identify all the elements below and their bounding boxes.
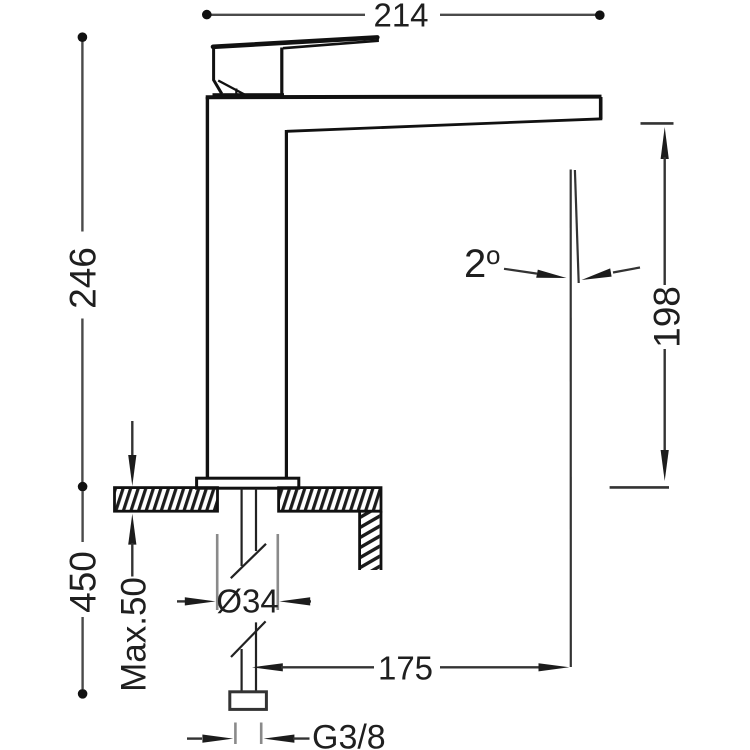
dimension 198 bottom tick xyxy=(610,486,669,489)
dimension 450 line upper xyxy=(81,491,83,542)
2-degree reference vertical line xyxy=(570,170,572,668)
G3/8 right arrow xyxy=(264,735,295,743)
dimension 175 right arrowhead xyxy=(539,663,570,671)
faucet handle lever bottom edge xyxy=(283,38,378,48)
handle wedge diagonal xyxy=(218,81,244,95)
dimension 450 shared dot xyxy=(78,482,88,492)
dimension 214 right dot xyxy=(595,10,605,20)
dimension 175 left arrowhead xyxy=(252,663,283,671)
svg-text:450: 450 xyxy=(63,551,104,613)
svg-text:Ø34: Ø34 xyxy=(216,582,278,619)
base flange xyxy=(197,478,299,488)
spout right end edge xyxy=(599,97,603,119)
handle base left edge xyxy=(214,46,222,94)
dimension 198 up arrowhead xyxy=(661,127,669,159)
Max.50 upper shaft xyxy=(131,421,133,456)
Max.50 up arrowhead xyxy=(128,514,136,545)
svg-text:198: 198 xyxy=(647,286,688,348)
counter left slab hatched xyxy=(115,488,218,512)
dimension 246 line lower xyxy=(81,319,83,483)
diameter 34 left extension line xyxy=(216,534,219,610)
diameter 34 right extension line xyxy=(276,534,279,610)
2-degree right leader with arrowhead xyxy=(613,268,640,273)
faucet handle lever blade xyxy=(213,37,377,46)
dimension 246 line upper xyxy=(81,41,83,232)
G3/8 square fitting xyxy=(230,692,267,710)
dimension 450 line lower xyxy=(81,617,83,689)
handle base bottom thick line xyxy=(213,93,285,98)
svg-text:o: o xyxy=(486,240,500,270)
supply shank right line upper xyxy=(255,489,257,552)
svg-text:Max.50: Max.50 xyxy=(115,577,154,692)
svg-text:2: 2 xyxy=(464,242,486,286)
pipe break slash 1 xyxy=(231,544,266,578)
supply shank left line lower xyxy=(241,649,243,692)
pipe break slash 2 xyxy=(231,621,266,657)
dimension 198 upper shaft xyxy=(664,157,666,285)
G3/8 right extension tick xyxy=(260,723,263,745)
dimension 450 bottom dot xyxy=(78,689,88,699)
svg-text:G3/8: G3/8 xyxy=(312,719,386,750)
diameter 34 left arrow xyxy=(177,600,186,602)
dimension 214 left dot xyxy=(202,10,212,20)
svg-text:214: 214 xyxy=(373,0,428,33)
svg-text:246: 246 xyxy=(63,247,104,309)
G3/8 left extension tick xyxy=(234,723,237,745)
supply shank right line lower xyxy=(255,622,257,691)
column top edge and spout top edge xyxy=(206,95,602,100)
column right edge xyxy=(285,130,288,479)
2-degree left leader with arrowhead xyxy=(504,269,537,274)
dimension 175 right shaft xyxy=(440,666,539,668)
dimension 214 line left segment xyxy=(208,14,365,16)
handle base right edge xyxy=(280,48,283,97)
Max.50 lower shaft xyxy=(131,543,133,577)
spout bottom sloped edge xyxy=(287,119,603,132)
2-degree tilted line xyxy=(575,170,579,283)
G3/8 left arrow xyxy=(187,737,202,739)
dimension 175 left shaft xyxy=(281,666,374,668)
supply shank left line upper xyxy=(241,489,243,567)
svg-text:175: 175 xyxy=(378,649,433,686)
diameter 34 right arrow xyxy=(310,600,311,602)
column left edge xyxy=(206,97,209,479)
Max.50 down arrowhead xyxy=(128,455,136,486)
dimension 246 top dot xyxy=(78,32,88,42)
counter right slab hatched band xyxy=(279,488,381,512)
dimension 198 top tick xyxy=(641,122,674,125)
dimension 198 lower shaft xyxy=(664,349,666,452)
dimension 214 line right segment xyxy=(440,14,598,16)
counter edge strip hatched xyxy=(360,511,381,570)
dimension 198 down arrowhead xyxy=(661,450,669,481)
handle wedge tick xyxy=(235,89,237,96)
